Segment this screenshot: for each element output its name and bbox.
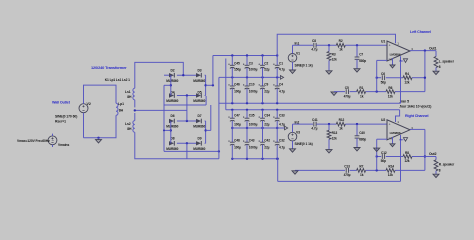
wire bridge2 right column	[205, 121, 207, 143]
node 0V rail upper	[276, 76, 278, 78]
flag 0V upper	[280, 76, 283, 80]
node 0V rail upper	[231, 76, 233, 78]
svg-text:MUR860: MUR860	[193, 147, 205, 151]
svg-text:V1: V1	[296, 52, 300, 56]
ground mute	[392, 142, 394, 144]
wire +V right feed	[225, 59, 227, 110]
svg-text:D7: D7	[198, 114, 202, 118]
svg-text:22µ: 22µ	[264, 123, 269, 127]
svg-text:Vmains: Vmains	[58, 143, 69, 147]
svg-text:1k: 1k	[360, 94, 364, 98]
capacitor C41	[313, 122, 315, 127]
node top rail	[246, 54, 248, 56]
svg-text:1k: 1k	[339, 126, 343, 130]
inductor Ls2	[133, 121, 135, 133]
svg-text:8: 8	[439, 65, 441, 69]
wire Ls2 bottom	[135, 132, 219, 159]
wire bottom bridge row1	[169, 120, 171, 122]
capacitor C42	[262, 128, 264, 142]
wire input3	[345, 44, 387, 46]
node bridge2 left	[170, 129, 172, 131]
capacitor C33	[276, 110, 278, 118]
wire feedback row1 R	[377, 156, 382, 158]
node top rail	[276, 54, 278, 56]
svg-text:C40: C40	[359, 131, 365, 135]
svg-text:100µ: 100µ	[234, 146, 241, 150]
diode D9	[196, 141, 201, 145]
wire input2	[316, 123, 336, 125]
svg-text:Right Channel: Right Channel	[405, 114, 429, 118]
ground V1	[292, 69, 294, 71]
node +V right rail	[276, 109, 278, 111]
svg-text:4.7µ: 4.7µ	[279, 68, 285, 72]
wire mute pin	[392, 137, 394, 143]
svg-text:56p: 56p	[381, 159, 386, 163]
node 0V rail upper	[246, 76, 248, 78]
svg-text:C6: C6	[381, 72, 385, 76]
node bridge1 row2 mid	[186, 94, 188, 96]
svg-text:R_speaker: R_speaker	[439, 163, 455, 167]
node feedback mid	[376, 90, 378, 92]
svg-text:22µ: 22µ	[264, 68, 269, 72]
resistor L_speaker	[435, 51, 437, 57]
wire Out2	[425, 156, 436, 158]
capacitor C40	[356, 124, 358, 136]
wire input	[293, 44, 314, 46]
node +V right rail	[261, 109, 263, 111]
svg-text:C12: C12	[381, 151, 387, 155]
svg-text:U2: U2	[381, 118, 385, 122]
wire ac feed mid	[164, 104, 206, 106]
capacitor C2	[262, 56, 264, 66]
wire ac feed vertical	[163, 85, 165, 151]
ground L_speaker	[435, 70, 437, 73]
svg-text:C41: C41	[312, 118, 318, 122]
node top rail	[261, 54, 263, 56]
svg-text:1000µ: 1000µ	[249, 123, 258, 127]
node feedback row1 right	[424, 77, 426, 79]
svg-text:12k: 12k	[332, 136, 337, 140]
wire center tap riser	[186, 96, 188, 122]
svg-text:+: +	[389, 122, 391, 126]
svg-text:Lp1: Lp1	[118, 102, 124, 106]
op-amp U1	[387, 41, 410, 61]
svg-text:C34: C34	[264, 113, 270, 117]
diode D8	[169, 141, 174, 145]
svg-text:Wall Outlet: Wall Outlet	[52, 101, 71, 105]
svg-text:22µ: 22µ	[264, 90, 269, 94]
svg-text:SINE(0 170 60): SINE(0 170 60)	[55, 115, 77, 119]
capacitor C6	[381, 75, 383, 80]
wire top bridge row2	[169, 95, 171, 97]
wire 0V rail upper	[219, 76, 281, 78]
svg-text:R3: R3	[332, 52, 336, 56]
flag V-	[403, 138, 407, 142]
diode D6	[169, 119, 174, 123]
svg-text:100µ: 100µ	[234, 90, 241, 94]
node bridge1 right	[204, 84, 206, 86]
node bridge2 row2 mid	[186, 142, 188, 144]
wire input	[293, 123, 314, 125]
capacitor C45	[231, 56, 233, 66]
svg-text:C32: C32	[279, 139, 285, 143]
node 0V rail lower	[276, 127, 278, 129]
diode D3	[196, 73, 201, 77]
svg-text:K1 Lp1 Ls1 Ls2 1: K1 Lp1 Ls1 Ls2 1	[105, 78, 130, 82]
node 0V rail upper	[261, 76, 263, 78]
svg-text:D3: D3	[198, 68, 202, 72]
svg-text:U1: U1	[381, 39, 385, 43]
wire -V right run	[278, 180, 401, 182]
ground feedback R	[294, 169, 296, 171]
svg-text:470µ: 470µ	[344, 173, 351, 177]
ground primary	[98, 138, 100, 140]
svg-text:R7: R7	[359, 165, 363, 169]
diode D5	[196, 93, 201, 97]
svg-text:MUR860: MUR860	[193, 125, 205, 129]
wire center tap	[134, 100, 136, 108]
svg-text:R2: R2	[339, 39, 343, 43]
svg-text:1000µ: 1000µ	[249, 146, 258, 150]
wire bridge2 row2 drop	[186, 143, 188, 159]
voltage source Vmains	[48, 136, 57, 145]
node Out2 tap	[424, 155, 426, 157]
svg-text:MUR860: MUR860	[166, 125, 178, 129]
resistor R3	[328, 45, 330, 51]
svg-text:470µ: 470µ	[344, 94, 351, 98]
svg-text:D9: D9	[198, 136, 202, 140]
inductor Ls1	[133, 88, 135, 100]
svg-text:R14: R14	[388, 165, 394, 169]
node fb R mid	[376, 169, 378, 171]
resistor R14	[386, 169, 395, 173]
node 0V rail lower	[246, 127, 248, 129]
node bridge1 row1 mid	[182, 74, 184, 76]
voltage source V1	[288, 54, 297, 63]
svg-text:680p: 680p	[359, 138, 366, 142]
svg-text:100µ: 100µ	[234, 123, 241, 127]
ground C7	[356, 67, 358, 70]
svg-text:MUR860: MUR860	[166, 99, 178, 103]
ground feedback	[333, 91, 335, 93]
svg-text:D6: D6	[171, 114, 175, 118]
ground R13	[328, 148, 330, 151]
svg-text:C48: C48	[234, 139, 240, 143]
svg-text:150µ: 150µ	[234, 68, 241, 72]
svg-text:C13: C13	[344, 165, 350, 169]
svg-text:.four 1kHz 10 v(out1): .four 1kHz 10 v(out1)	[399, 105, 431, 109]
svg-text:LM3886: LM3886	[390, 131, 401, 135]
diode D7	[196, 119, 201, 123]
ground R3	[328, 69, 330, 72]
wire feedback row2 R	[295, 169, 345, 171]
svg-text:R12: R12	[339, 118, 345, 122]
capacitor C12	[381, 154, 383, 159]
svg-text:C1: C1	[279, 62, 283, 66]
resistor R8	[403, 155, 412, 159]
svg-text:4.7µ: 4.7µ	[311, 126, 317, 130]
wire bridge1 left feed	[164, 84, 171, 86]
capacitor C4	[276, 77, 278, 86]
node -V right rail	[231, 158, 233, 160]
wire +V right rail	[226, 109, 400, 111]
svg-text:12k: 12k	[404, 159, 409, 163]
diode D4	[169, 93, 174, 97]
wire feedback row1	[377, 77, 382, 79]
svg-text:+: +	[389, 44, 391, 48]
node -V left rail	[231, 102, 233, 104]
node ac feed T	[163, 129, 165, 131]
svg-text:L_speaker: L_speaker	[439, 59, 455, 63]
wire bottom bridge row2	[169, 142, 171, 144]
wire input2	[316, 44, 336, 46]
resistor R_speaker	[435, 157, 437, 160]
svg-text:MUR860: MUR860	[166, 79, 178, 83]
node filter junction	[356, 44, 358, 46]
svg-text:MUR860: MUR860	[193, 79, 205, 83]
svg-text:22µ: 22µ	[264, 146, 269, 150]
capacitor C1	[276, 56, 278, 66]
node -V left rail	[276, 102, 278, 104]
svg-text:C45: C45	[234, 62, 240, 66]
wire bridge2 left column	[170, 121, 172, 143]
capacitor C47	[231, 110, 233, 118]
node V- pin	[400, 139, 402, 141]
resistor R4	[403, 76, 412, 80]
capacitor C43	[246, 128, 248, 142]
svg-text:4.7µ: 4.7µ	[279, 146, 285, 150]
capacitor C5	[345, 89, 347, 94]
svg-text:56p: 56p	[381, 80, 386, 84]
svg-text:4.7µ: 4.7µ	[279, 90, 285, 94]
svg-text:R13: R13	[332, 131, 338, 135]
node V- pin	[400, 60, 402, 62]
svg-text:C42: C42	[264, 139, 270, 143]
svg-text:8H: 8H	[127, 127, 132, 131]
svg-text:C10: C10	[249, 82, 255, 86]
capacitor C8	[313, 43, 315, 48]
node -V left rail	[261, 102, 263, 104]
ground V3	[292, 148, 294, 150]
node -V right rail	[276, 158, 278, 160]
svg-text:4.7µ: 4.7µ	[279, 123, 285, 127]
svg-text:Vmax=120V Fre=60Hz: Vmax=120V Fre=60Hz	[17, 139, 50, 143]
ground R_speaker	[435, 173, 437, 176]
capacitor C7	[356, 45, 358, 57]
node primary ground junction	[97, 137, 99, 139]
wire primary top	[84, 85, 117, 104]
wire U1 output	[410, 50, 436, 52]
svg-text:R6: R6	[388, 86, 392, 90]
resistor R13	[328, 124, 330, 130]
wire V- pin	[400, 135, 402, 140]
wire inverting node	[376, 60, 378, 91]
svg-text:R4: R4	[405, 72, 409, 76]
svg-text:C7: C7	[359, 52, 363, 56]
flag V-	[403, 59, 407, 63]
svg-text:C9: C9	[264, 82, 268, 86]
svg-text:D2: D2	[171, 68, 175, 72]
wire Out1 feedback drop	[424, 51, 426, 92]
ground stray	[376, 147, 378, 150]
resistor R1	[357, 90, 366, 94]
wire -V left rail	[219, 102, 401, 104]
node center tap	[134, 109, 136, 111]
wire 0V rail lower	[232, 127, 284, 129]
node top rail	[231, 54, 233, 56]
svg-text:R8: R8	[405, 151, 409, 155]
wire bridge1 left column	[170, 75, 172, 95]
svg-text:8: 8	[439, 168, 441, 172]
svg-text:V2: V2	[87, 102, 91, 106]
capacitor C10	[246, 77, 248, 86]
wire zero rail drop	[218, 77, 220, 158]
svg-text:12k: 12k	[404, 80, 409, 84]
svg-text:C35: C35	[249, 113, 255, 117]
wire U2 V+ feed	[396, 110, 400, 122]
svg-text:8H: 8H	[119, 109, 124, 113]
wire top rail +V left	[213, 55, 277, 57]
wire Ls1 top to bridge	[135, 62, 184, 88]
svg-text:R1: R1	[359, 86, 363, 90]
wire bridge2 plus riser	[210, 105, 212, 130]
wire top bridge row1	[164, 74, 169, 76]
capacitor C32	[276, 128, 278, 142]
flag 0V lower	[285, 126, 288, 130]
wire V- pin	[400, 56, 402, 61]
ground mute	[392, 64, 394, 66]
op-amp U2	[387, 120, 410, 140]
node Out1	[424, 49, 426, 51]
wire -V right rail	[232, 158, 277, 160]
svg-text:Rser=1: Rser=1	[55, 120, 66, 124]
svg-text:SINE(0 1 1k): SINE(0 1 1k)	[295, 142, 313, 146]
wire U1 V- riser	[400, 61, 402, 103]
node ac return	[218, 150, 220, 152]
svg-text:12k: 12k	[388, 94, 393, 98]
svg-text:680p: 680p	[359, 59, 366, 63]
svg-text:12k: 12k	[332, 58, 337, 62]
wire U1 V+ pin	[277, 34, 395, 55]
svg-text:1000µ: 1000µ	[249, 90, 258, 94]
svg-text:C3: C3	[249, 62, 253, 66]
node bridge2 row1 mid	[186, 120, 188, 122]
node bridge2 right	[204, 129, 206, 131]
node +V right rail	[231, 109, 233, 111]
svg-text:C46: C46	[234, 82, 240, 86]
resistor R12	[336, 122, 345, 126]
svg-text:C43: C43	[249, 139, 255, 143]
svg-text:C5: C5	[345, 86, 349, 90]
svg-text:SINE(0 1 1k): SINE(0 1 1k)	[295, 63, 313, 67]
svg-text:120/240 Transformer: 120/240 Transformer	[91, 65, 127, 70]
capacitor C48	[231, 128, 233, 142]
ground C40	[356, 146, 358, 149]
capacitor C34	[262, 110, 264, 118]
node input junction	[328, 44, 330, 46]
svg-text:C47: C47	[234, 113, 240, 117]
inductor Lp1	[116, 103, 118, 115]
svg-text:4.7µ: 4.7µ	[311, 48, 317, 52]
capacitor C13	[345, 168, 347, 173]
node -V right rail	[261, 158, 263, 160]
svg-text:LM3886: LM3886	[390, 52, 401, 56]
node input junction	[328, 123, 330, 125]
svg-text:1k: 1k	[360, 173, 364, 177]
svg-text:V3: V3	[296, 130, 300, 134]
wire feedback row2	[338, 91, 345, 93]
svg-text:C33: C33	[279, 113, 285, 117]
capacitor C46	[231, 77, 233, 86]
wire -V right drop	[277, 159, 279, 182]
svg-text:1k: 1k	[339, 48, 343, 52]
wire Out2 feedback drop	[424, 129, 426, 170]
node -V left rail	[246, 102, 248, 104]
svg-text:12k: 12k	[388, 173, 393, 177]
capacitor C9	[262, 77, 264, 86]
diode D2	[169, 73, 174, 77]
svg-text:Ls2: Ls2	[125, 122, 131, 126]
svg-text:1000µ: 1000µ	[249, 68, 258, 72]
node 0V rail lower	[261, 127, 263, 129]
node -V right rail	[246, 158, 248, 160]
svg-text:C8: C8	[312, 39, 316, 43]
wire bridge1 right column	[205, 75, 207, 95]
resistor R6	[386, 90, 395, 94]
node bridge1 plus	[212, 84, 214, 86]
node fb R row1 left	[376, 155, 378, 157]
wire bridge2 plus stub	[206, 129, 211, 131]
wire mute pin	[392, 58, 394, 64]
svg-text:MUR860: MUR860	[166, 147, 178, 151]
svg-text:8H: 8H	[127, 95, 132, 99]
voltage source V2	[79, 104, 88, 113]
wire ac return bottom	[164, 150, 219, 152]
node feedback row1 left	[376, 77, 378, 79]
svg-text:D5: D5	[198, 91, 202, 95]
wire primary bottom	[83, 113, 85, 138]
capacitor C3	[246, 56, 248, 66]
wire inverting node R	[376, 139, 378, 170]
wire bridge2 left feed	[164, 129, 171, 131]
resistor R2	[336, 43, 345, 47]
wire bridge1 plus stub	[206, 84, 213, 86]
capacitor C35	[246, 110, 248, 118]
node filter junction	[356, 123, 358, 125]
svg-text:MUR860: MUR860	[193, 99, 205, 103]
node bridge1 left	[170, 84, 172, 86]
wire U2 output	[410, 128, 425, 130]
voltage source V3	[288, 132, 297, 141]
svg-text:Out2: Out2	[429, 152, 437, 156]
svg-text:Ls1: Ls1	[125, 90, 131, 94]
wire plus rail riser	[212, 56, 214, 86]
svg-text:C2: C2	[264, 62, 268, 66]
resistor R7	[357, 169, 366, 173]
svg-text:C4: C4	[279, 82, 283, 86]
svg-text:Left Channel: Left Channel	[410, 30, 431, 34]
node 0V rail lower	[231, 127, 233, 129]
wire input3	[345, 123, 387, 125]
svg-text:Out1: Out1	[429, 46, 437, 50]
wire U2 V- riser	[400, 140, 402, 182]
node +V right rail	[246, 109, 248, 111]
